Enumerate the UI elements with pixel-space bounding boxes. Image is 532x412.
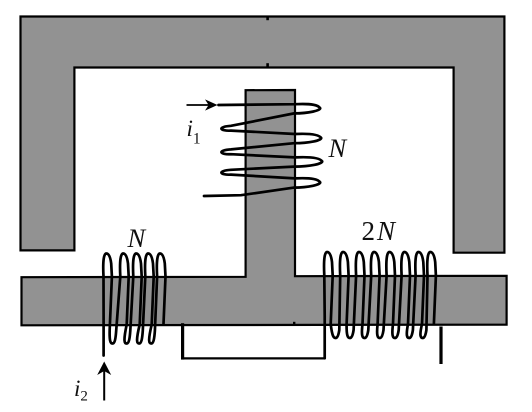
label N (left coil): [128, 225, 146, 252]
tick mark inner top edge: [266, 63, 269, 68]
arrow i1 head: [205, 99, 218, 110]
arrow i2 head: [97, 362, 111, 376]
core bottom T (center leg + bottom bar): [22, 90, 507, 325]
terminal stub left (below bar): [181, 323, 184, 359]
label i1: [187, 117, 201, 147]
label N (center coil): [329, 135, 347, 162]
arrow i2 shaft: [103, 370, 105, 401]
connecting wire bottom U: [183, 357, 325, 359]
coil 2N on bottom-right bar: [324, 252, 436, 358]
tick mark top edge: [266, 16, 269, 20]
terminal stub right (below bar): [439, 327, 442, 365]
coil N on bottom-left bar (i2 winding): [103, 254, 165, 356]
core top yoke (inverted-U gray core piece): [21, 17, 505, 253]
arrow i1 shaft: [187, 104, 213, 106]
tick mark bar bottom edge: [293, 322, 295, 325]
label i2: [74, 377, 88, 405]
label 2N (right coil): [362, 218, 396, 245]
coil N on center leg (i1 winding): [204, 104, 322, 196]
